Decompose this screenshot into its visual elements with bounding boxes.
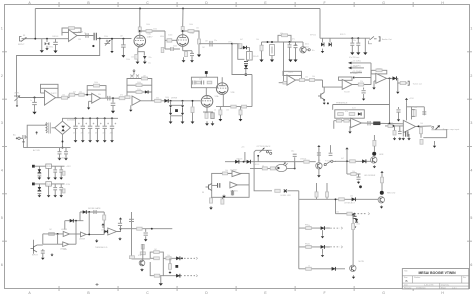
svg-text:47u: 47u (103, 133, 106, 135)
wire U5 in (279, 82, 287, 84)
capacitor C17 (111, 103, 116, 105)
wire R45 gnd path (420, 134, 422, 138)
label AC (13, 134, 16, 137)
ground VR7915 reg (47, 195, 51, 197)
wire Q3 drain (323, 87, 325, 92)
wire loop top b (232, 74, 253, 76)
label U10C (79, 238, 86, 240)
svg-text:LED DRIVER: LED DRIVER (364, 175, 376, 177)
ground Q2 (321, 51, 324, 53)
wire U3 fb right (105, 90, 107, 98)
svg-text:22u: 22u (148, 63, 151, 65)
svg-text:7915: 7915 (46, 184, 50, 186)
wire VR7915 rail (35, 183, 65, 185)
node led branch (335, 198, 337, 200)
wire filter cap 0 stub (351, 38, 353, 43)
capacitor C31 electrolytic (88, 126, 92, 128)
resistor R50 (141, 244, 144, 249)
node row1-V2 feed (231, 43, 233, 45)
label INPUT (23, 35, 26, 37)
wire VR7815 col2 gnd (54, 172, 56, 177)
op-amp U10A (63, 231, 69, 236)
capacitor C35 (58, 152, 62, 154)
op-amp U10D (108, 228, 117, 235)
resistor R43 (388, 124, 393, 127)
resistor R28 (207, 81, 212, 84)
ground C17 (111, 111, 115, 114)
label V1A cathode (149, 57, 152, 59)
op-amp U3 feedback loop (87, 86, 106, 90)
svg-text:Audio Out: Audio Out (382, 38, 392, 41)
wire U1A out (77, 35, 93, 37)
svg-text:4k7: 4k7 (341, 158, 344, 160)
wire AC link (20, 137, 23, 139)
wire input to op-amp (22, 38, 69, 40)
wire fan row 3 (299, 268, 345, 270)
label net b (352, 65, 361, 67)
trimmer VR2 (270, 45, 275, 56)
label LED2 (379, 154, 384, 156)
transistor Q4 fet (31, 245, 38, 252)
svg-text:IN: IN (202, 192, 205, 194)
wire opto row left (225, 161, 316, 163)
svg-text:LM339: LM339 (79, 238, 86, 240)
svg-text:G: G (382, 291, 385, 295)
wire xfmr top (45, 124, 48, 126)
resistor R78 grid (161, 48, 164, 53)
op-amp U4 (132, 96, 141, 105)
diode D18 (362, 159, 366, 163)
resistor R48 (49, 232, 55, 235)
ground C1 (53, 51, 57, 54)
resistor VR7915 r1 (63, 189, 65, 193)
ground psu cap 0 (74, 140, 78, 142)
wire row1 out (199, 43, 233, 45)
svg-text:250k: 250k (173, 46, 177, 48)
regulator VR7815 (46, 164, 52, 168)
node Q3 gnd (323, 99, 325, 101)
ground cath b (239, 119, 243, 121)
wire fan row 0 dashed (327, 227, 343, 229)
label LED3 (387, 193, 396, 195)
node U7 out (389, 77, 391, 79)
resistor R12 (198, 39, 201, 44)
wire V1A plate (139, 32, 141, 35)
wire jack drop (257, 157, 259, 162)
label input jack (18, 44, 25, 46)
env loop (150, 252, 163, 276)
label U1A pin (78, 39, 81, 41)
label audio out (382, 38, 392, 41)
svg-text:100k: 100k (189, 24, 193, 26)
wire foot drop (330, 145, 332, 152)
diode D22 (321, 245, 325, 249)
wire ngC out (86, 233, 104, 235)
ground Q5 (140, 268, 144, 271)
resistor R49 (137, 227, 142, 230)
svg-text:Sheet: Sheet (441, 286, 446, 289)
wire VR1 stub (111, 39, 113, 44)
wire psu cap 1 gnd (82, 129, 84, 140)
wire V2A cathode (206, 107, 208, 112)
svg-text:OPTION JACK: OPTION JACK (257, 145, 271, 148)
wire C48 bot (120, 226, 122, 229)
svg-text:4k7: 4k7 (240, 39, 243, 41)
svg-text:1u: 1u (30, 100, 32, 102)
svg-text:B: B (405, 279, 407, 283)
wire env out (163, 257, 182, 259)
plus mark C29 (78, 123, 80, 125)
svg-text:1 of 1: 1 of 1 (452, 287, 457, 289)
wire R12 down (198, 45, 200, 55)
wire relay mid (246, 60, 249, 62)
node ngA in (57, 233, 59, 235)
svg-text:10k: 10k (414, 107, 417, 109)
svg-text:GRN: GRN (379, 154, 384, 156)
wire subrail drop V2 (283, 42, 285, 71)
wire C40 stub (145, 229, 147, 232)
svg-text:1N914: 1N914 (48, 47, 53, 49)
capacitor C42 (231, 191, 233, 196)
resistor R63 (304, 160, 309, 163)
capacitor C14 electrolytic (356, 43, 360, 45)
svg-text:CH1: CH1 (228, 41, 232, 43)
resistor R14 (282, 34, 288, 37)
pad ladder mid (175, 109, 178, 112)
wire relay branch (238, 44, 245, 60)
label Q1 node (312, 50, 315, 52)
wire VR7815 col3 gnd (60, 172, 62, 177)
ground ladder 0 (169, 122, 173, 124)
svg-text:250k: 250k (153, 29, 157, 31)
wire ngC to D (103, 232, 105, 234)
op-amp U3 (92, 93, 101, 103)
plus mark C32 (100, 123, 102, 125)
transistor Q2 pair (321, 43, 332, 47)
svg-text:AC 18V: AC 18V (33, 149, 41, 152)
wire U2 fb left (40, 88, 42, 93)
wire ngD out (117, 229, 121, 232)
switch SW1 audio out (369, 36, 375, 43)
label presence (336, 102, 348, 104)
svg-text:47k: 47k (280, 33, 283, 35)
resistor R18 (79, 93, 84, 96)
capacitor C6 (171, 47, 173, 51)
ground U9 d (407, 137, 410, 140)
svg-text:4-JUL-1996: 4-JUL-1996 (424, 284, 433, 286)
resistor R72 (306, 267, 312, 270)
led LED2 (372, 152, 376, 156)
svg-text:TL072: TL072 (344, 92, 351, 94)
ground Q10 (352, 275, 355, 279)
node subrail a (267, 41, 269, 43)
svg-text:DRIVE: DRIVE (171, 97, 178, 99)
svg-text:1M: 1M (49, 229, 52, 231)
svg-text:10k: 10k (62, 94, 65, 96)
label drive (171, 97, 178, 99)
capacitor C11 (288, 45, 292, 47)
label net a (352, 60, 361, 62)
ground V1A cathode a (136, 62, 140, 64)
label threshold (95, 247, 108, 249)
ground VR7915 c2 (53, 195, 57, 197)
wire C1 drop (55, 39, 57, 42)
capacitor C18 (193, 81, 195, 85)
svg-text:Rev: Rev (463, 277, 466, 279)
svg-text:100: 100 (420, 123, 423, 125)
wire C1 to gnd (55, 45, 57, 51)
diode D8 pair (181, 105, 184, 115)
wire ngB in (43, 243, 63, 245)
wire out row1 (96, 38, 131, 40)
wire C11 gnd (289, 47, 291, 59)
svg-text:10k: 10k (350, 196, 353, 198)
wire ng top row (80, 211, 104, 213)
svg-text:PRESENCE: PRESENCE (336, 102, 348, 104)
wire ngA out (70, 233, 81, 235)
svg-text:47u: 47u (110, 133, 113, 135)
capacitor C20 (211, 113, 214, 119)
wire jack to led (254, 152, 272, 191)
wire C6 to cathode (174, 48, 181, 50)
inductor L1 (374, 122, 381, 125)
wire branch down (164, 31, 166, 49)
resistor R44 (393, 131, 396, 135)
label U11 (230, 170, 238, 172)
capacitor C45 (329, 153, 333, 155)
ground C46 (357, 181, 360, 184)
wire U9 in (385, 125, 403, 127)
wire R50 chain (142, 244, 144, 260)
svg-text:680k: 680k (160, 36, 164, 38)
capacitor C4 (121, 45, 126, 47)
diode D23 (332, 267, 336, 271)
wire ngB out (69, 243, 76, 245)
wire sec cap 0 gnd (59, 154, 61, 158)
triode V2B (216, 83, 228, 95)
node psu cap 1 (82, 117, 84, 119)
diode D2 (47, 42, 49, 45)
wire AC rail 2 (24, 147, 71, 149)
node relay out (245, 73, 248, 76)
resistor R70 (306, 227, 312, 230)
wire U9 plus drop (402, 130, 404, 137)
capacitor C10 (244, 62, 248, 64)
svg-text:1k: 1k (214, 110, 216, 112)
node ngC out (88, 233, 90, 235)
pad V2 plate (205, 71, 208, 74)
node VR1 (111, 38, 113, 40)
op-amp U7 (376, 73, 387, 83)
resistor R31 (242, 105, 247, 108)
capacitor C12 electrolytic (294, 45, 298, 47)
capacitor VR7815 c3 (59, 170, 63, 172)
capacitor C44 (317, 153, 321, 155)
wire subrail to Q1 (296, 41, 303, 43)
svg-text:10k: 10k (225, 170, 228, 172)
transistor Q10 (350, 265, 356, 271)
wire U4 plus drop (130, 105, 132, 109)
label tuner out (413, 82, 423, 85)
diode D4 (244, 65, 248, 69)
wire led branch row (336, 213, 355, 215)
svg-text:100k: 100k (165, 97, 169, 99)
wire U6 out (352, 84, 371, 86)
svg-text:10k: 10k (101, 230, 104, 232)
resistor R10 (188, 30, 194, 33)
svg-text:1A 4x1N4007: 1A 4x1N4007 (57, 157, 68, 160)
capacitor C7 bypass (143, 56, 147, 59)
svg-text:4: 4 (1, 169, 3, 173)
wire LED2 link (373, 146, 375, 152)
node bridge rail (62, 147, 64, 149)
wire V2B cath row (216, 106, 252, 108)
svg-text:E: E (264, 291, 267, 295)
svg-text:1k5: 1k5 (131, 57, 134, 59)
diode D1 (45, 42, 47, 45)
wire C4 stub (122, 39, 124, 45)
wire LED2 top (373, 135, 375, 140)
label U10A (61, 229, 68, 231)
svg-text:10k: 10k (256, 39, 259, 41)
wire HT bus top (35, 8, 320, 10)
svg-text:BS170: BS170 (340, 34, 345, 36)
diode VR7915 zener (38, 187, 41, 190)
wire U2 fb right (57, 88, 59, 97)
capacitor C38 (41, 251, 45, 253)
resistor R35 (358, 83, 363, 86)
wire U11B out (237, 184, 249, 186)
node ng b (75, 220, 77, 222)
diode D5 (145, 90, 148, 93)
label VR7915 out (66, 184, 71, 186)
wire R42 link bot (412, 115, 415, 117)
resistor R11 (185, 51, 188, 56)
plus mark C33 (107, 123, 109, 125)
resistor R57 (223, 172, 228, 175)
svg-text:4k7: 4k7 (73, 91, 76, 93)
label U11B (230, 191, 238, 193)
node bridge neg (62, 141, 64, 143)
ground C40 (144, 236, 148, 241)
node subrail c (289, 41, 291, 43)
resistor R62 (270, 167, 275, 170)
wire U3 fb left (86, 90, 88, 95)
label V1A type (147, 35, 154, 38)
plus mark C31 (93, 123, 95, 125)
wire ngD in (104, 232, 108, 235)
svg-text:Number: Number (414, 277, 421, 279)
wire r3 branch (411, 107, 413, 120)
wire env bot dashed (184, 275, 198, 277)
capacitor C2 (86, 33, 88, 38)
capacitor C8 (190, 53, 194, 55)
svg-text:IN: IN (23, 35, 26, 37)
ground env (159, 283, 163, 286)
svg-text:Filename: Filename (404, 287, 411, 289)
ground Q8 (373, 165, 376, 168)
wire env row (132, 258, 151, 260)
junction blob (359, 185, 362, 188)
diode D21 (321, 226, 325, 230)
wire ngA fb (43, 233, 45, 235)
node ladder a (170, 100, 172, 102)
wire led bias down (346, 161, 348, 174)
svg-text:47u: 47u (88, 133, 91, 135)
wire U8 plus drop (349, 126, 351, 131)
svg-text:47u: 47u (95, 133, 98, 135)
wire filter cap 0 gnd (351, 46, 353, 53)
wire V1B branch (183, 30, 197, 32)
wire U7 plus drop (373, 81, 375, 88)
wire U8 in (334, 120, 351, 122)
wire AC to xfmr (25, 125, 45, 137)
ground audio jack (363, 52, 367, 55)
svg-text:47k: 47k (345, 111, 348, 113)
label U10B (60, 249, 67, 251)
resistor R47 (103, 215, 106, 220)
resistor R59 (221, 199, 224, 204)
transistor Q9 (378, 197, 384, 203)
wire sec cap 1 gnd (65, 154, 67, 158)
svg-text:VTWIN.S01: VTWIN.S01 (416, 287, 426, 289)
wire env bot (163, 275, 182, 277)
ground U9 c (402, 138, 405, 141)
resistor R64 (350, 160, 356, 163)
wire R58 top (211, 196, 213, 199)
label fs rows b (305, 243, 308, 245)
wire V2 feed drop (231, 44, 233, 75)
wire V1A plate to bus (139, 9, 141, 28)
wire fan spine (298, 191, 300, 269)
node env top (151, 228, 153, 230)
label zener a (305, 44, 310, 46)
op-amp U1A feedback loop (62, 28, 81, 32)
label BR1 (67, 120, 76, 122)
wire ladder cap stub (192, 101, 194, 107)
wire ldr cap drop (294, 157, 296, 168)
capacitor C27 (406, 131, 408, 136)
wire U5 to U6 (323, 80, 343, 87)
wire C4 gnd (122, 47, 124, 55)
svg-text:1k: 1k (308, 225, 310, 227)
svg-text:1k5: 1k5 (226, 110, 229, 112)
diode D3 (243, 46, 247, 50)
wire Q3 source (323, 100, 325, 102)
svg-text:47u: 47u (73, 133, 76, 135)
wire ng right drop (103, 212, 105, 232)
resistor R73 (352, 224, 355, 230)
wire branch bottom (165, 48, 171, 50)
wire Q9 collector (381, 175, 383, 191)
wire C15 gnd (34, 105, 36, 112)
wire filter cap 1 stub (357, 38, 359, 43)
node input-bus junction (34, 38, 36, 40)
svg-text:TL072: TL072 (51, 93, 58, 95)
svg-text:+15V: +15V (66, 166, 72, 168)
resistor R22 (136, 84, 142, 87)
diode VR7815 zener (38, 169, 41, 172)
svg-text:6: 6 (1, 263, 3, 267)
svg-text:+15 (CH1): +15 (CH1) (352, 60, 361, 62)
ground ng mid (51, 253, 54, 256)
title block (402, 269, 469, 290)
plus mark C34 (115, 123, 117, 125)
wire diodes stub (46, 39, 48, 42)
ground psu cap 1 (81, 140, 85, 142)
svg-text:LEVEL LDR: LEVEL LDR (281, 195, 292, 197)
supply loop (278, 35, 291, 42)
